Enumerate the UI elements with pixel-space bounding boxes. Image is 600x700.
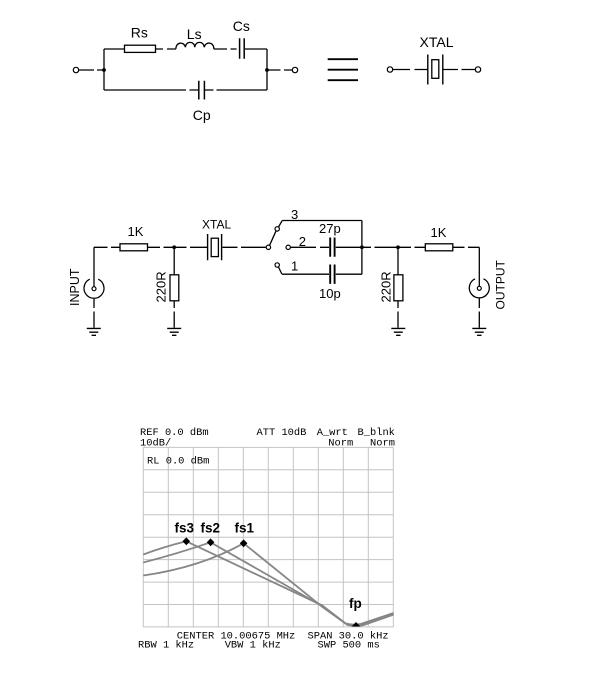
wire contact1 to line [278,267,281,274]
crystal XTAL electrodes (middle) [208,234,222,260]
svg-text:fs1: fs1 [235,521,255,536]
switch common contact [266,245,270,249]
svg-text:3: 3 [291,207,298,222]
wire [393,69,427,71]
switch contact 3 [275,227,279,231]
ground output [472,328,486,335]
marker fp triangle [352,622,361,626]
marker fs3 [183,537,191,545]
svg-text:10dB/: 10dB/ [140,437,171,449]
wire output vertical [478,247,480,286]
equivalence symbol [328,59,358,80]
wire Ls to Cs [214,48,237,50]
wire to ground [93,299,95,328]
svg-text:1K: 1K [128,224,144,239]
svg-text:Cp: Cp [193,107,211,123]
node junction right [396,245,400,249]
wire to ground [173,301,175,328]
svg-text:1: 1 [291,259,298,274]
wire junction to XTAL [174,246,207,248]
svg-text:RL 0.0 dBm: RL 0.0 dBm [147,456,209,468]
svg-text:fp: fp [349,596,362,611]
terminal left [73,67,78,72]
trace fs3 [143,541,393,624]
wire position 1 line [282,273,329,275]
switch contact 1 [275,263,279,267]
switch arm to position 3 [270,231,276,245]
wire [444,69,476,71]
wire input to 1K [94,246,120,248]
svg-text:Norm: Norm [370,437,395,449]
resistor 220R left [170,275,179,301]
resistor 220R right [394,275,403,301]
wire XTAL to switch [222,246,265,248]
svg-text:1K: 1K [431,225,447,240]
wire 1K to corner [453,246,480,248]
trace fs1 [143,543,393,626]
svg-text:XTAL: XTAL [420,34,454,50]
svg-text:INPUT: INPUT [68,268,82,306]
terminal right of xtal [475,67,480,72]
svg-text:OUTPUT: OUTPUT [494,260,508,310]
wire down to 220R [173,247,175,274]
wire cap block right vertical [361,221,363,275]
svg-text:Cs: Cs [233,18,250,34]
connector INPUT BNC [84,279,104,298]
wire bottom rail [104,89,267,91]
svg-text:RBW 1 kHz: RBW 1 kHz [138,640,194,652]
terminal right [292,67,297,72]
wire 27p to rail [336,246,362,248]
wire top rail to Rs [104,48,125,50]
wire input vertical [93,247,95,286]
wire [148,246,175,248]
wire junction to 1K right [398,246,425,248]
ground 220R right [391,328,405,335]
inductor Ls [176,42,214,49]
svg-text:2: 2 [299,234,306,249]
grid [143,447,393,627]
capacitor 27p [330,238,334,257]
resistor 1K left [120,244,148,251]
resistor 1K right [425,244,453,251]
svg-text:220R: 220R [154,271,169,302]
svg-text:fs3: fs3 [175,521,195,536]
ground 220R left [167,328,181,335]
svg-text:SWP 500 ms: SWP 500 ms [318,640,380,652]
wire Cs to right rail [245,48,267,50]
wire [79,69,104,71]
wire right rail [266,49,268,90]
trace fs2 [143,542,393,625]
wire to ground [397,301,399,328]
svg-text:Rs: Rs [131,25,148,41]
svg-text:10p: 10p [319,286,341,301]
node right junction [265,68,269,72]
crystal XTAL plate [432,60,439,79]
marker fs2 [207,538,215,546]
svg-text:fs2: fs2 [201,521,221,536]
wire Rs to Ls [156,48,177,50]
svg-text:Ls: Ls [187,26,202,42]
wire contact3 to line [279,221,283,227]
connector OUTPUT BNC [469,279,489,298]
wire position 2 line [291,246,329,248]
wire position 3 line [282,220,362,222]
node junction left [172,245,176,249]
node cap block junction [360,245,364,249]
capacitor Cs [240,38,245,59]
wire to right terminal [267,69,292,71]
svg-text:ATT 10dB: ATT 10dB [257,427,307,439]
svg-text:XTAL: XTAL [202,218,231,232]
marker fs1 [240,539,248,547]
crystal XTAL electrodes [428,55,443,85]
wire 10p to rail [336,273,362,275]
node left junction [102,68,106,72]
switch contact 2 [286,245,290,249]
wire to right junction [362,246,398,248]
svg-text:220R: 220R [379,271,394,302]
svg-text:27p: 27p [319,221,341,236]
wire down to 220R right [397,247,399,274]
terminal left of xtal [387,67,392,72]
capacitor Cp [199,81,205,100]
wire to ground [478,298,480,327]
wire left rail [103,49,105,90]
svg-text:Norm: Norm [328,437,353,449]
crystal XTAL plate (middle) [211,238,218,256]
resistor Rs [125,45,156,52]
svg-text:VBW 1 kHz: VBW 1 kHz [225,640,281,652]
ground input [87,328,101,335]
capacitor 10p [330,265,334,284]
